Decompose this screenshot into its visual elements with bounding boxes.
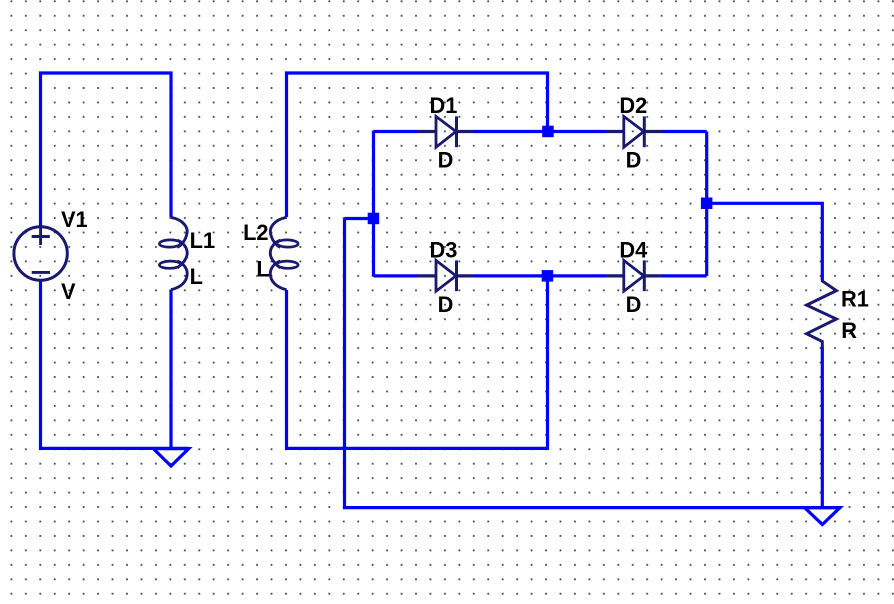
wire negative output stub from junction	[345, 217, 374, 220]
inductor L2 loop ellipse lower	[277, 261, 298, 269]
wire top rail left segment (D1 anode)	[374, 130, 418, 133]
svg-text:L2: L2	[243, 220, 268, 245]
svg-text:V1: V1	[61, 207, 88, 232]
node junction left vertical (negative output)	[368, 213, 380, 225]
wire V1 top to L1 top (left loop upper run)	[41, 73, 172, 226]
svg-text:L1: L1	[190, 228, 215, 253]
inductor L1 coil arcs	[171, 217, 187, 289]
svg-text:L: L	[256, 257, 269, 282]
svg-text:L: L	[190, 264, 203, 289]
wire bottom rail left segment (D3 anode)	[374, 274, 418, 277]
inductor L1 loop ellipse lower	[159, 261, 180, 269]
wire left bridge vertical (D1/D3 anodes)	[372, 132, 375, 276]
inductor L2 loop ellipse upper	[277, 240, 298, 248]
wire R1 bottom to ground run	[821, 347, 824, 508]
inductor L1 loop ellipse upper	[159, 240, 180, 248]
svg-text:D: D	[438, 148, 454, 173]
wire top rail middle segment (D1 cathode to D2 anode)	[474, 130, 606, 133]
ground (right, at load)	[805, 508, 840, 525]
svg-text:D4: D4	[619, 237, 647, 262]
diode D3	[418, 260, 474, 291]
svg-text:V: V	[61, 279, 76, 304]
svg-text:D2: D2	[619, 93, 647, 118]
node junction right vertical (positive output)	[701, 198, 713, 210]
ground (left, at transformer primary)	[153, 449, 188, 466]
wire L1 bottom down to ground node	[169, 290, 172, 449]
wire top rail right segment (D2 cathode to right vertical)	[663, 130, 707, 133]
wire L2 bottom down and right then up to node B	[287, 276, 548, 449]
resistor R1 zigzag	[807, 279, 837, 347]
V1 plus sign	[32, 228, 50, 245]
wire bottom rail middle segment (D3 cathode to D4 anode)	[474, 274, 606, 277]
diode D2	[605, 116, 663, 147]
svg-text:D3: D3	[430, 237, 458, 262]
svg-text:D: D	[626, 148, 642, 173]
svg-text:D: D	[438, 292, 454, 317]
wire positive output to R1 top	[707, 203, 823, 279]
svg-text:R: R	[841, 318, 857, 343]
inductor L2 coil arcs (mirrored)	[270, 217, 286, 289]
node B junction (L2 bottom to D3/D4)	[542, 270, 554, 282]
wire V1 bottom down and right to ground node	[41, 282, 189, 449]
svg-text:R1: R1	[841, 286, 869, 311]
diode D4	[605, 260, 663, 291]
diode D1	[418, 116, 474, 147]
node A junction (L2 top to D1/D2)	[542, 126, 554, 138]
wire negative output down and right to ground	[345, 219, 841, 508]
svg-text:D1: D1	[430, 93, 458, 118]
voltage source V1 circle	[14, 227, 67, 280]
V1 minus sign	[32, 271, 50, 274]
wire right bridge vertical (D2/D4 cathodes)	[705, 132, 708, 276]
wire bottom rail right segment (D4 cathode to right vertical)	[663, 274, 707, 277]
svg-text:D: D	[626, 292, 642, 317]
wire L2 top up and right then down to node A	[287, 73, 548, 217]
